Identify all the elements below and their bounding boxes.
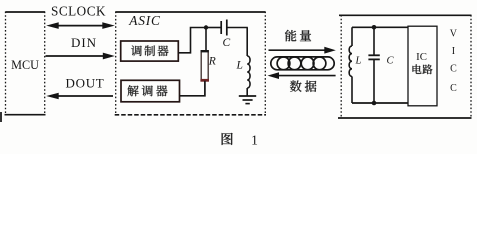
- svg-text:I: I: [452, 46, 455, 57]
- arrow energy right: [269, 47, 336, 54]
- svg-text:MCU: MCU: [11, 58, 39, 72]
- inductor L2: [349, 27, 352, 103]
- capacitor C plates: [221, 20, 227, 36]
- wire modulator output: [178, 28, 206, 53]
- node dot top C2: [372, 25, 377, 30]
- wire bottom rail right block: [352, 102, 408, 104]
- node dot bottom C2: [372, 101, 377, 106]
- wire DOUT arrow: [46, 93, 113, 100]
- wire capacitor to L branch: [227, 27, 247, 29]
- wire top to inductor L: [246, 28, 248, 57]
- ground symbol: [239, 96, 256, 104]
- svg-text:L: L: [355, 56, 362, 67]
- scan edge artifact: [0, 112, 2, 122]
- arrow data left: [268, 72, 336, 79]
- svg-text:R: R: [208, 55, 216, 67]
- inductor L coil: [247, 56, 250, 88]
- svg-text:IC: IC: [416, 51, 427, 63]
- block VICC outer: [338, 15, 472, 118]
- resistor R: [200, 51, 209, 81]
- svg-text:C: C: [387, 55, 395, 66]
- wire top rail right block: [352, 26, 408, 28]
- svg-text:V: V: [450, 29, 458, 40]
- svg-text:DOUT: DOUT: [66, 75, 105, 90]
- block ASIC: [115, 12, 266, 116]
- caption 图 1: [222, 133, 258, 148]
- demodulator box 解调器: [121, 80, 180, 102]
- wire junction down to R: [205, 28, 207, 51]
- wire SCLOCK double arrow: [46, 22, 115, 29]
- coupling coil symbol: [271, 57, 334, 70]
- capacitor C2: [368, 27, 379, 103]
- label VICC vertical: [450, 29, 458, 94]
- wire R bottom to demodulator: [180, 81, 205, 96]
- wire top to capacitor: [206, 27, 221, 29]
- IC circuit box: [408, 26, 437, 106]
- svg-text:C: C: [450, 64, 457, 75]
- svg-text:C: C: [223, 37, 231, 49]
- svg-text:ASIC: ASIC: [128, 13, 161, 28]
- svg-text:SCLOCK: SCLOCK: [51, 3, 106, 18]
- wire coil to ground: [246, 88, 248, 96]
- svg-text:C: C: [450, 83, 457, 94]
- label 数据: [290, 80, 302, 91]
- modulator box 调制器: [121, 41, 179, 61]
- node junction dot top: [204, 25, 208, 29]
- wire DIN arrow: [46, 53, 115, 60]
- block MCU: [5, 12, 46, 116]
- label 能量: [285, 30, 296, 42]
- svg-text:L: L: [236, 60, 243, 72]
- svg-text:1: 1: [251, 133, 258, 148]
- svg-text:DIN: DIN: [71, 35, 97, 50]
